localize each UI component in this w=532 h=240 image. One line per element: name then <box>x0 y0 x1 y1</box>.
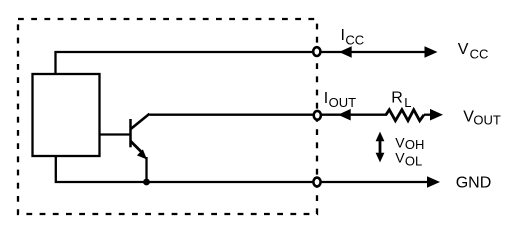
wire: resistor to VOUT arrow <box>424 114 436 116</box>
arrowhead: VCC terminal (right) <box>425 46 438 58</box>
svg-text:V: V <box>395 150 405 166</box>
dashed IC boundary box <box>18 19 317 214</box>
transistor Q1 base bar <box>129 119 132 147</box>
wire: block bottom to GND rail <box>56 156 313 182</box>
terminal circle: VCC pin <box>313 47 320 56</box>
svg-text:V: V <box>395 135 405 151</box>
wire: emitter down to GND rail <box>145 157 147 182</box>
transistor Q1 collector <box>131 114 150 129</box>
svg-text:OL: OL <box>405 154 422 169</box>
svg-text:L: L <box>404 95 411 110</box>
terminal circle: GND pin <box>313 178 320 187</box>
svg-text:CC: CC <box>470 46 489 61</box>
wire: base from block to transistor <box>100 133 131 135</box>
svg-text:OUT: OUT <box>473 113 501 128</box>
wire: VOUT rail outside circle to resistor <box>321 114 387 116</box>
wire: block top to VCC rail <box>56 52 314 74</box>
svg-text:V: V <box>458 41 469 58</box>
resistor RL zigzag <box>386 110 424 121</box>
transistor Q1 emitter <box>131 141 142 152</box>
arrowhead: GND terminal (right) <box>427 176 440 188</box>
svg-text:R: R <box>391 90 403 107</box>
arrowhead: VOUT terminal (right) <box>430 109 443 121</box>
wire: VCC rail outside circle <box>321 51 430 53</box>
svg-text:GND: GND <box>456 174 492 191</box>
arrowhead: IOUT current direction (left) <box>338 109 351 121</box>
junction dot: emitter/GND node <box>143 179 150 186</box>
internal block U1 <box>33 74 100 156</box>
terminal circle: VOUT pin <box>314 111 321 120</box>
wire: collector to VOUT rail <box>150 114 314 116</box>
arrowhead: ICC current direction (left) <box>339 46 352 58</box>
svg-text:OUT: OUT <box>329 95 357 110</box>
svg-text:OH: OH <box>405 137 425 152</box>
svg-text:I: I <box>324 90 328 107</box>
svg-text:CC: CC <box>345 33 364 48</box>
double arrow VOH/VOL <box>379 138 382 156</box>
wire: GND rail outside circle <box>321 181 433 183</box>
svg-text:I: I <box>341 27 345 44</box>
